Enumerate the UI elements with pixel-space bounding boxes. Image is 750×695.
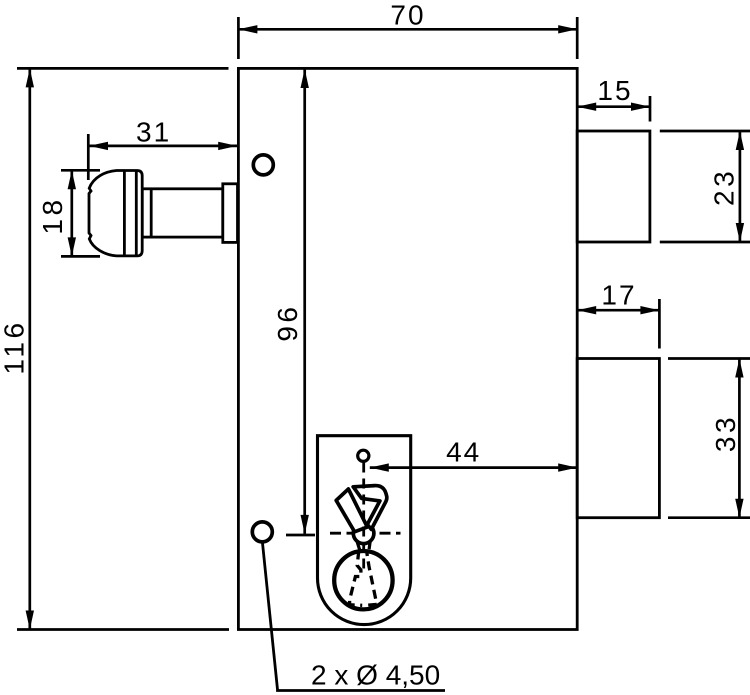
svg-text:70: 70 [390,0,425,31]
escutcheon plate [318,436,411,625]
dimension 70: left arrowhead [238,25,257,33]
lock body case [238,68,577,629]
escutcheon screw hole [358,450,369,461]
knob head [89,171,142,256]
dimension 31: left extension line [87,134,90,180]
key horizontal centerline (dashed) [330,532,401,535]
dimension 23: top extension line [660,130,750,133]
spindle end face line [150,189,153,237]
hole center reference tick for 96 [286,534,315,537]
key bit left band [336,489,367,532]
dimension 18: top extension line [61,169,100,172]
dimension 31: right arrowhead [218,142,237,150]
top fixing hole [253,155,273,175]
dimension 116: dimension line [28,68,31,629]
dimension 70: right arrowhead [558,25,577,33]
hole callout leader line [263,543,446,691]
dimension 15: left arrowhead [577,103,596,111]
dimension 15: right extension line [649,96,652,122]
hidden key blade outline right (dashed) [366,550,376,605]
bottom fixing hole [252,522,272,542]
dimension 96: top arrowhead [301,69,309,88]
dimension 70: right extension line [576,17,579,59]
dimension 44: left arrowhead [370,463,389,471]
dimension 33: bottom extension line [668,516,750,519]
key bit right flag [353,486,387,530]
svg-text:2 x Ø 4,50: 2 x Ø 4,50 [311,660,440,691]
dimension 18: dimension line [70,170,73,256]
dimension 15: dimension line [577,105,650,108]
dimension 15: right arrowhead [631,103,650,111]
dimension 18: bottom extension line [61,255,100,258]
dimension 96: bottom arrowhead [301,515,309,534]
svg-text:17: 17 [601,280,636,311]
dimension 33: top arrowhead [735,359,743,378]
hidden key blade outline left (dashed) [350,551,363,606]
key shaft boss [353,523,374,544]
key neck right line [369,541,370,549]
knob face line 1 [123,171,126,256]
dimension 70: dimension line [238,28,577,31]
mounting flange [223,184,238,243]
dimension 44: right arrowhead [558,463,577,471]
dimension 18: top arrowhead [68,170,76,189]
dimension 17: dimension line [577,309,659,312]
svg-text:116: 116 [0,319,30,374]
svg-text:44: 44 [446,436,481,467]
dimension 116: bottom extension line [17,628,229,631]
spindle shaft [142,189,223,237]
dimension 44: dimension line [370,466,577,469]
dimension 31: left arrowhead [89,142,108,150]
dimension 70: left extension line [237,17,240,59]
dimension 17: right extension line [658,299,661,349]
key vertical centerline (dashed) [362,463,365,569]
dimension 116: top arrowhead [26,68,34,87]
svg-text:31: 31 [136,116,171,147]
dimension 116: top extension line [17,67,229,70]
dimension 33: top extension line [668,357,750,360]
svg-text:96: 96 [272,304,303,342]
svg-text:18: 18 [37,196,68,234]
dimension 23: bottom extension line [660,241,750,244]
dimension 17: left arrowhead [577,306,596,314]
dimension 18: bottom arrowhead [68,237,76,256]
svg-text:23: 23 [709,168,740,206]
dimension 23: dimension line [739,131,742,242]
dimension 31: dimension line [89,145,237,148]
dimension 116: bottom arrowhead [26,611,34,630]
dimension 23: top arrowhead [736,131,744,150]
dimension 23: bottom arrowhead [736,223,744,242]
dimension 33: dimension line [738,359,741,518]
dimension 96: dimension line [303,69,306,534]
svg-text:33: 33 [710,414,741,452]
bottom bolt (17 wide) [577,359,659,518]
svg-text:15: 15 [597,75,632,106]
dimension 33: bottom arrowhead [735,499,743,518]
knob face line 2 [135,171,138,256]
key bow ring [334,551,392,609]
dimension 17: right arrowhead [640,306,659,314]
key neck left line [357,541,360,550]
top bolt (15 wide) [577,131,650,242]
